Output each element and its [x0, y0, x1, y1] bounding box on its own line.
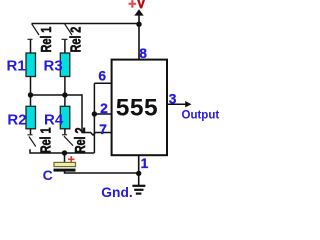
svg-text:R3: R3: [44, 58, 63, 75]
ground symbol: [132, 173, 145, 193]
wire pin 3 output with arrowhead: [167, 103, 186, 105]
svg-text:Rel 1: Rel 1: [37, 27, 54, 53]
junction dot +V rail: [136, 22, 141, 27]
wire pin 1 to ground node: [138, 155, 140, 174]
capacitor C top plate: [54, 162, 76, 166]
svg-text:3: 3: [169, 92, 177, 107]
wire R4 to bottom switch: [64, 129, 66, 134]
switch Rel1 top contact tick: [28, 38, 33, 40]
svg-text:C: C: [43, 167, 53, 183]
wire top rail: [32, 23, 140, 25]
svg-text:Output: Output: [182, 110, 220, 122]
wire +V vertical down to pin 8: [138, 15, 140, 59]
junction dot node B: [62, 150, 67, 155]
IC U1 555 box: [112, 60, 167, 156]
switch Rel1 bottom blade: [29, 137, 36, 147]
node B rail with left riser: [30, 149, 94, 153]
svg-text:Rel 1: Rel 1: [37, 128, 54, 154]
svg-text:6: 6: [98, 69, 106, 84]
wire node A to pin 7 (with crossover dip): [82, 94, 111, 135]
+V supply label: [128, 0, 145, 12]
svg-text:555: 555: [116, 95, 158, 122]
wire node B down to capacitor: [64, 153, 66, 163]
resistor R1: [26, 53, 36, 77]
wire switch Rel1 to R1: [30, 40, 32, 53]
wire capacitor to ground node: [65, 171, 139, 173]
+V arrow: [134, 9, 143, 15]
svg-text:2: 2: [100, 101, 108, 116]
svg-text:R4: R4: [44, 111, 64, 128]
junction dot pin 2 tie: [92, 111, 97, 116]
wire R1 to node A: [30, 77, 32, 95]
svg-text:Gnd.: Gnd.: [101, 185, 132, 198]
junction dot ground node: [136, 171, 141, 176]
svg-text:8: 8: [139, 46, 147, 61]
switch Rel2 bottom blade: [64, 136, 73, 145]
switch Rel2 top contact tick: [62, 38, 68, 40]
wire R2 to bottom switch: [30, 129, 32, 134]
resistor R3: [60, 53, 70, 77]
switch Rel2 bottom contact tick: [62, 134, 67, 136]
capacitor C bottom plate: [54, 169, 76, 172]
resistor R4: [60, 106, 70, 129]
node A rail: [31, 94, 83, 96]
wire switch Rel2 to R3: [64, 40, 66, 53]
wire pin 2: [94, 113, 111, 115]
svg-text:R2: R2: [7, 111, 26, 128]
svg-text:Rel 2: Rel 2: [67, 27, 84, 53]
svg-text:7: 7: [99, 122, 107, 137]
wire pin 6: [94, 82, 111, 84]
svg-text:1: 1: [141, 156, 149, 171]
switch Rel1 top blade: [32, 24, 39, 35]
switch Rel1 bottom contact tick: [28, 134, 33, 136]
svg-text:R1: R1: [7, 58, 26, 75]
wire pins 2-6 tie vertical down to node B: [93, 83, 95, 153]
wire R4 stub from node A: [64, 95, 66, 106]
svg-text:Rel 2: Rel 2: [71, 128, 88, 154]
svg-text:V: V: [137, 0, 145, 11]
wire R3 to node A: [64, 77, 66, 95]
switch Rel2 top blade: [65, 24, 72, 35]
junction dot node A right: [62, 92, 67, 97]
resistor R2: [26, 106, 36, 129]
svg-text:+: +: [128, 0, 136, 12]
junction dot node A left: [28, 92, 33, 97]
wire R2 stub from node A: [30, 95, 32, 106]
